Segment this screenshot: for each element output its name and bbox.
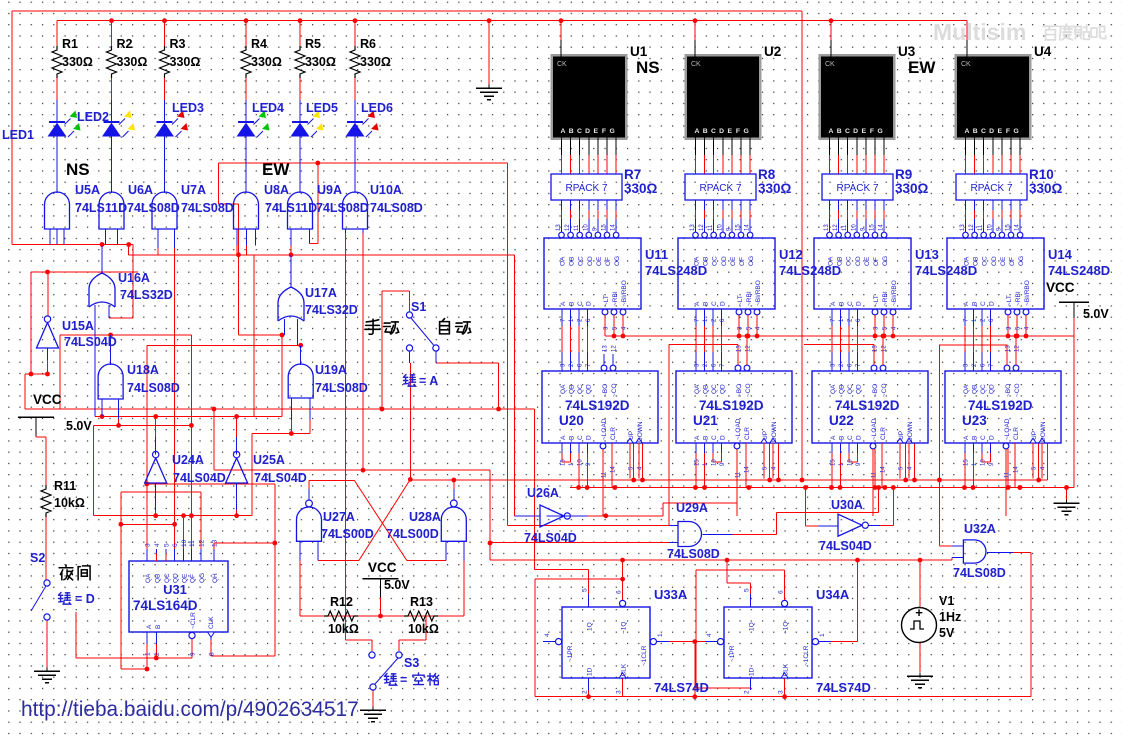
- svg-text:CLR: CLR: [880, 427, 887, 440]
- svg-text:330Ω: 330Ω: [62, 55, 93, 69]
- svg-text:NS: NS: [66, 160, 90, 179]
- wire CK U4: [966, 38, 968, 40]
- svg-text:B: B: [155, 625, 162, 629]
- switch S3 key space: [369, 652, 375, 658]
- svg-text:G: G: [878, 128, 883, 135]
- svg-text:QD: QD: [989, 384, 996, 394]
- svg-text:LED2: LED2: [77, 110, 109, 124]
- svg-text:B: B: [569, 128, 574, 135]
- svg-text:330Ω: 330Ω: [117, 55, 148, 69]
- svg-text:QH: QH: [212, 573, 219, 583]
- svg-text:74LS192D: 74LS192D: [699, 398, 764, 413]
- svg-text:5: 5: [164, 543, 171, 547]
- svg-text:11: 11: [978, 224, 984, 231]
- wire U30A output riser: [880, 524, 893, 526]
- svg-text:D: D: [585, 128, 590, 135]
- svg-text:D: D: [720, 301, 727, 306]
- svg-text:= D: = D: [75, 592, 95, 606]
- wire y425 bus: [94, 424, 192, 426]
- svg-text:QA: QA: [694, 384, 701, 394]
- wire U27 left input to R12: [299, 541, 301, 616]
- LED4: [245, 100, 247, 122]
- svg-text:13: 13: [211, 539, 218, 547]
- svg-text:OA: OA: [560, 256, 567, 266]
- svg-text:U5A: U5A: [75, 183, 100, 197]
- svg-text:10kΩ: 10kΩ: [54, 496, 85, 510]
- svg-text:U32A: U32A: [964, 522, 996, 536]
- svg-text:~LT: ~LT: [873, 295, 880, 306]
- svg-text:74LS04D: 74LS04D: [819, 539, 872, 553]
- svg-text:OF: OF: [605, 257, 612, 266]
- svg-text:4: 4: [154, 543, 161, 547]
- inverter U15A 74LS04D: [37, 323, 59, 349]
- svg-text:DOWN: DOWN: [637, 421, 644, 442]
- svg-text:74LS08D: 74LS08D: [127, 201, 180, 215]
- svg-text:A: A: [963, 435, 970, 440]
- wire S3 right link: [425, 616, 427, 640]
- svg-text:10: 10: [181, 539, 188, 547]
- svg-text:LED6: LED6: [361, 101, 393, 115]
- svg-text:U34A: U34A: [816, 587, 850, 602]
- svg-text:330Ω: 330Ω: [758, 181, 792, 196]
- svg-text:OC: OC: [578, 256, 585, 266]
- wire S3 to ground: [372, 690, 374, 707]
- svg-text:D: D: [856, 435, 863, 440]
- svg-text:~CO: ~CO: [745, 383, 752, 397]
- svg-text:OE: OE: [864, 256, 871, 266]
- and gate U10A 74LS08D: [343, 192, 368, 229]
- power VCC right 5V: [1059, 301, 1089, 303]
- wire U31 clock: [211, 655, 275, 657]
- switch S2 key D: [44, 580, 50, 586]
- svg-text:VCC: VCC: [1046, 280, 1075, 295]
- svg-text:A: A: [830, 435, 837, 440]
- svg-text:10: 10: [583, 224, 589, 231]
- ground below V1: [919, 673, 921, 677]
- svg-text:~RBI: ~RBI: [746, 291, 753, 306]
- wire load line: [588, 515, 663, 517]
- svg-text:G: G: [744, 128, 749, 135]
- svg-text:11: 11: [842, 224, 848, 231]
- svg-text:QB: QB: [839, 385, 846, 394]
- wire pin12 branch: [121, 491, 201, 493]
- svg-text:~BI/RBO: ~BI/RBO: [621, 280, 628, 306]
- svg-text:1Q: 1Q: [587, 622, 594, 631]
- svg-text:330Ω: 330Ω: [305, 55, 336, 69]
- svg-text:U25A: U25A: [253, 453, 285, 467]
- power VCC 5V: [18, 416, 54, 418]
- svg-text:QA: QA: [830, 384, 837, 394]
- svg-text:R6: R6: [360, 37, 376, 51]
- svg-text:~BO: ~BO: [1005, 384, 1012, 397]
- svg-text:U20: U20: [559, 413, 584, 428]
- svg-text:B: B: [839, 302, 846, 306]
- svg-text:CK: CK: [825, 61, 835, 68]
- wire pin6 riser: [174, 229, 176, 561]
- svg-text:E: E: [998, 128, 1003, 135]
- svg-text:330Ω: 330Ω: [170, 55, 201, 69]
- wire pin3 riser: [146, 345, 148, 561]
- svg-text:12: 12: [969, 224, 975, 231]
- svg-text:OF: OF: [1009, 257, 1016, 266]
- wire U33 pin6 feed: [622, 560, 624, 579]
- wire y335 net right: [239, 334, 285, 336]
- svg-text:OG: OG: [1018, 256, 1025, 266]
- svg-text:A: A: [963, 301, 970, 306]
- svg-text:13: 13: [690, 224, 696, 231]
- wire clock riser to U31: [274, 484, 276, 656]
- wire VCC2 stem: [380, 597, 382, 616]
- wire U34A pin5 feed: [726, 560, 728, 583]
- svg-text:QC: QC: [577, 384, 584, 394]
- wire U32A output: [1030, 553, 1032, 697]
- svg-text:OG: OG: [882, 256, 889, 266]
- svg-text:11: 11: [736, 471, 742, 478]
- svg-text:OG: OG: [748, 256, 755, 266]
- svg-text:~RBI: ~RBI: [1015, 291, 1022, 306]
- svg-text:R12: R12: [330, 595, 353, 609]
- svg-text:1D: 1D: [587, 667, 594, 676]
- svg-text:15: 15: [870, 224, 876, 231]
- svg-text:QD: QD: [586, 384, 593, 394]
- wire top bus rail: [57, 20, 967, 22]
- svg-text:74LS08D: 74LS08D: [316, 201, 369, 215]
- svg-text:OA: OA: [828, 256, 835, 266]
- svg-text:330Ω: 330Ω: [360, 55, 391, 69]
- wire U10A lead to S3: [344, 233, 346, 640]
- svg-text:OF: OF: [873, 257, 880, 266]
- seven segment display U1: [551, 54, 628, 140]
- svg-text:10: 10: [848, 459, 854, 466]
- svg-text:74LS04D: 74LS04D: [64, 335, 117, 349]
- wire y335 net left: [60, 334, 191, 336]
- and gate U18A 74LS08D: [110, 335, 112, 365]
- svg-text:U12: U12: [779, 247, 803, 262]
- svg-text:15: 15: [831, 459, 837, 466]
- svg-text:RPACK 7: RPACK 7: [836, 183, 878, 194]
- svg-text:1Q: 1Q: [749, 622, 756, 631]
- svg-text:QA: QA: [963, 384, 970, 394]
- seven segment display U4: [955, 54, 1032, 140]
- inverter U25A 74LS04D: [236, 417, 238, 438]
- and gate U7A 74LS08D: [152, 192, 177, 229]
- wire pin11 riser: [190, 335, 192, 561]
- svg-text:U10A: U10A: [370, 183, 402, 197]
- svg-text:U4: U4: [1034, 44, 1052, 59]
- wire U33 T loop: [535, 578, 623, 580]
- svg-text:OF: OF: [739, 257, 746, 266]
- svg-text:1D: 1D: [749, 667, 756, 676]
- svg-text:74LS192D: 74LS192D: [565, 398, 630, 413]
- svg-text:QD: QD: [173, 573, 180, 583]
- wire carry link U20-U21: [669, 344, 738, 346]
- svg-text:15: 15: [695, 459, 701, 466]
- svg-text:LED4: LED4: [252, 101, 284, 115]
- svg-text:DOWN: DOWN: [907, 421, 914, 442]
- svg-text:330Ω: 330Ω: [1029, 181, 1063, 196]
- svg-text:~LT: ~LT: [603, 295, 610, 306]
- svg-text:QC: QC: [980, 384, 987, 394]
- svg-text:12: 12: [1015, 345, 1021, 352]
- LED6: [354, 100, 356, 122]
- svg-text:U18A: U18A: [127, 363, 159, 377]
- junction dots: [109, 18, 114, 23]
- svg-text:R10: R10: [1029, 167, 1054, 182]
- svg-text:U26A: U26A: [527, 486, 559, 500]
- svg-text:OC: OC: [982, 256, 989, 266]
- svg-text:U17A: U17A: [305, 286, 337, 300]
- ground top middle: [488, 21, 490, 85]
- svg-text:OD: OD: [721, 256, 728, 266]
- svg-text:12: 12: [833, 224, 839, 231]
- svg-text:2: 2: [744, 690, 751, 694]
- svg-text:74LS32D: 74LS32D: [120, 288, 173, 302]
- svg-text:12: 12: [612, 345, 618, 352]
- svg-text:D: D: [853, 128, 858, 135]
- wire y416 bus: [95, 416, 282, 418]
- svg-text:QE: QE: [182, 573, 189, 583]
- svg-text:QB: QB: [569, 385, 576, 394]
- wire U22 U23 loads: [874, 449, 876, 488]
- svg-text:RPACK 7: RPACK 7: [565, 183, 607, 194]
- svg-text:LED1: LED1: [2, 128, 34, 142]
- resistor pack R8 RPACK 330ohm: [695, 138, 697, 156]
- ground below S3: [372, 707, 374, 711]
- resistor R3 330ohm: [164, 21, 166, 46]
- svg-text:13: 13: [737, 345, 743, 352]
- svg-text:3: 3: [145, 543, 152, 547]
- svg-text:~1CLR: ~1CLR: [641, 645, 648, 666]
- svg-text:QC: QC: [711, 384, 718, 394]
- wire ground right stem: [1066, 488, 1068, 501]
- svg-text:F: F: [1006, 128, 1010, 135]
- svg-text:NS: NS: [636, 58, 660, 77]
- svg-text:3: 3: [616, 690, 623, 694]
- wire CK U2: [694, 21, 696, 40]
- svg-text:CK: CK: [961, 61, 971, 68]
- svg-text:10: 10: [578, 459, 584, 466]
- wire pin10 riser: [183, 516, 185, 561]
- svg-text:CLR: CLR: [1013, 427, 1020, 440]
- svg-text:~1PR: ~1PR: [567, 645, 574, 662]
- wire CK U3: [830, 21, 832, 40]
- svg-text:U8A: U8A: [264, 183, 289, 197]
- svg-text:UP: UP: [898, 431, 905, 440]
- svg-text:~RBI: ~RBI: [882, 291, 889, 306]
- svg-text:B: B: [972, 302, 979, 306]
- svg-text:R5: R5: [305, 37, 321, 51]
- svg-text:B: B: [837, 128, 842, 135]
- svg-text:74LS04D: 74LS04D: [254, 471, 307, 485]
- svg-text:74LS08D: 74LS08D: [181, 201, 234, 215]
- svg-text:U28A: U28A: [409, 510, 441, 524]
- svg-text:F: F: [736, 128, 740, 135]
- wire pin13 branch: [213, 543, 215, 561]
- svg-text:6: 6: [172, 543, 179, 547]
- svg-text:UP: UP: [628, 431, 635, 440]
- svg-text:15: 15: [964, 459, 970, 466]
- svg-text:R11: R11: [54, 479, 76, 493]
- svg-text:U6A: U6A: [128, 183, 153, 197]
- svg-text:VCC: VCC: [33, 392, 62, 407]
- svg-text:VCC: VCC: [368, 560, 397, 575]
- decoder U13 74LS248D: [814, 238, 911, 309]
- flip-flop U33A 74LS74D: [562, 607, 650, 678]
- svg-text:U13: U13: [915, 247, 939, 262]
- svg-text:U14: U14: [1048, 247, 1073, 262]
- svg-text:D: D: [856, 301, 863, 306]
- svg-text:14: 14: [611, 224, 617, 231]
- svg-text:OG: OG: [614, 256, 621, 266]
- wire R11 connections: [35, 417, 37, 437]
- svg-text:C: C: [981, 128, 986, 135]
- counter U21 74LS192D: [676, 371, 792, 443]
- svg-text:U3: U3: [898, 44, 916, 59]
- svg-text:~CO: ~CO: [611, 383, 618, 397]
- inverter U24A 74LS04D: [155, 417, 157, 438]
- or gate U17A 74LS32D: [290, 255, 292, 288]
- shift register U31 74LS164D: [129, 561, 228, 632]
- svg-text:11: 11: [1005, 471, 1011, 478]
- svg-text:U27A: U27A: [323, 510, 355, 524]
- svg-text:10kΩ: 10kΩ: [408, 622, 439, 636]
- wire carry link U21-U22: [804, 344, 874, 346]
- svg-text:A: A: [829, 128, 834, 135]
- and gate U29A 74LS08D: [669, 525, 678, 527]
- svg-text:=: =: [400, 673, 407, 687]
- wire EW to U29 upper: [507, 163, 509, 526]
- svg-text:4: 4: [544, 633, 551, 637]
- svg-text:+: +: [915, 605, 923, 620]
- LED1: [56, 100, 58, 122]
- svg-text:10: 10: [717, 224, 723, 231]
- svg-text:V1: V1: [939, 594, 954, 608]
- svg-text:B: B: [703, 302, 710, 306]
- svg-text:A: A: [561, 128, 566, 135]
- svg-text:12: 12: [565, 224, 571, 231]
- svg-text:B: B: [703, 436, 710, 440]
- svg-text:OD: OD: [587, 256, 594, 266]
- svg-text:330Ω: 330Ω: [251, 55, 282, 69]
- svg-text:QD: QD: [856, 384, 863, 394]
- seven segment display U2: [685, 54, 762, 140]
- svg-text:74LS11D: 74LS11D: [265, 201, 317, 215]
- svg-text:G: G: [610, 128, 615, 135]
- svg-text:B: B: [839, 436, 846, 440]
- svg-text:R13: R13: [410, 595, 433, 609]
- svg-text:= A: = A: [419, 374, 438, 388]
- wire U34 pin1 riser: [857, 560, 859, 642]
- svg-text:C: C: [847, 435, 854, 440]
- svg-text:15: 15: [561, 459, 567, 466]
- svg-text:74LS08D: 74LS08D: [953, 566, 1006, 580]
- and gate U19A 74LS08D: [300, 345, 302, 365]
- svg-text:~CLR: ~CLR: [190, 612, 197, 629]
- svg-text:C: C: [980, 435, 987, 440]
- svg-text:U22: U22: [829, 413, 854, 428]
- svg-text:15: 15: [602, 224, 608, 231]
- resistor pack R9 RPACK 330ohm: [829, 138, 831, 156]
- svg-text:5: 5: [582, 588, 589, 592]
- svg-text:U2: U2: [764, 44, 781, 59]
- resistor R6 330ohm: [354, 21, 356, 46]
- svg-text:U7A: U7A: [181, 183, 206, 197]
- svg-text:OC: OC: [712, 256, 719, 266]
- svg-text:OB: OB: [569, 257, 576, 266]
- svg-text:~BO: ~BO: [872, 384, 879, 397]
- svg-text:R8: R8: [758, 167, 776, 182]
- svg-text:OB: OB: [973, 257, 980, 266]
- svg-text:B: B: [972, 436, 979, 440]
- wire U15 input: [47, 348, 49, 374]
- svg-text:U29A: U29A: [676, 501, 708, 515]
- svg-text:C: C: [711, 128, 716, 135]
- resistor R4 330ohm: [245, 21, 247, 46]
- svg-text:S1: S1: [411, 300, 426, 314]
- resistor R12 10kohm: [324, 611, 358, 621]
- svg-text:C: C: [577, 301, 584, 306]
- svg-text:EW: EW: [262, 160, 290, 179]
- wire lower bus y487: [570, 487, 1074, 489]
- svg-text:QB: QB: [703, 385, 710, 394]
- svg-text:U30A: U30A: [831, 498, 863, 512]
- svg-text:S3: S3: [404, 656, 419, 670]
- svg-text:R4: R4: [251, 37, 267, 51]
- resistor R5 330ohm: [299, 21, 301, 46]
- wire V1 to bus: [919, 560, 921, 607]
- svg-text:A: A: [560, 435, 567, 440]
- svg-text:U21: U21: [693, 413, 718, 428]
- svg-text:13: 13: [1006, 345, 1012, 352]
- svg-text:D: D: [586, 301, 593, 306]
- svg-text:15: 15: [1006, 224, 1012, 231]
- svg-text:1: 1: [657, 633, 664, 637]
- wire V1 bottom: [919, 643, 921, 673]
- svg-text:12: 12: [746, 345, 752, 352]
- wire U30A input: [805, 488, 807, 527]
- wire VCC right rail: [1073, 310, 1075, 488]
- wire S1-D path: [534, 409, 536, 570]
- wire U5 U6 input bus: [12, 244, 133, 246]
- svg-text:C: C: [577, 128, 582, 135]
- svg-text:B: B: [569, 302, 576, 306]
- svg-text:74LS08D: 74LS08D: [315, 381, 368, 395]
- svg-text:10: 10: [987, 224, 993, 231]
- svg-text:A: A: [965, 128, 970, 135]
- svg-text:Multisim: Multisim: [933, 19, 1026, 45]
- svg-text:330Ω: 330Ω: [624, 181, 658, 196]
- LED3: [164, 100, 166, 122]
- svg-text:OE: OE: [596, 256, 603, 266]
- wire EW feed: [219, 162, 508, 164]
- and gate U32A 74LS08D: [952, 545, 963, 547]
- svg-text:QF: QF: [189, 574, 196, 583]
- svg-text:14: 14: [1015, 224, 1021, 231]
- wire U26 input: [514, 255, 516, 516]
- svg-text:~LOAD: ~LOAD: [735, 418, 742, 440]
- svg-text:A: A: [146, 624, 153, 629]
- svg-text:LED3: LED3: [172, 101, 204, 115]
- svg-text:~1Q: ~1Q: [783, 622, 790, 634]
- svg-text:U16A: U16A: [118, 271, 150, 285]
- svg-text:R7: R7: [624, 167, 641, 182]
- svg-text:A: A: [694, 301, 701, 306]
- svg-text:B: B: [569, 436, 576, 440]
- svg-text:LED5: LED5: [306, 101, 338, 115]
- svg-text:1: 1: [819, 633, 826, 637]
- wire U16 right input bracket: [109, 317, 133, 319]
- svg-text:CLR: CLR: [610, 427, 617, 440]
